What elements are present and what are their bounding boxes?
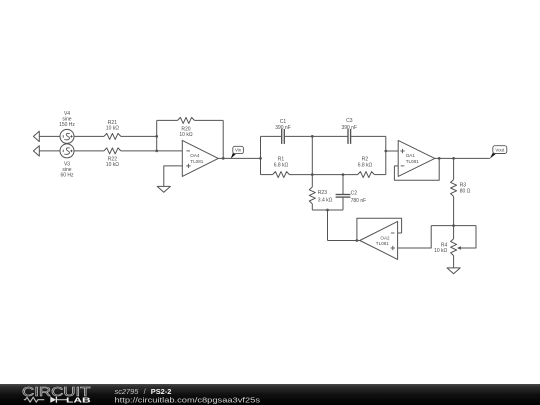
wire node to OA4 inverting input bbox=[157, 150, 183, 152]
wire R21 to summing node bbox=[121, 135, 157, 137]
wire C1 node to C3 bbox=[312, 135, 348, 137]
junction dot R3/R4 bbox=[452, 224, 455, 227]
wire R23/C2 bottom bbox=[312, 209, 343, 211]
wire R1 to mid node bbox=[289, 174, 312, 176]
capacitor C1 390 nF bbox=[275, 119, 291, 144]
svg-text:TL081: TL081 bbox=[406, 159, 419, 164]
potentiometer R4 10 kOhm bbox=[434, 226, 461, 268]
CircuitLab logo bbox=[22, 385, 92, 405]
svg-text:390 nF: 390 nF bbox=[342, 125, 358, 131]
node flag Vin bbox=[231, 146, 244, 158]
wire OA1 inverting stub bbox=[394, 165, 398, 167]
wire OA2 output riser bbox=[327, 210, 329, 241]
svg-text:C1: C1 bbox=[280, 119, 287, 125]
svg-text:http://circuitlab.com/c8pgsaa3: http://circuitlab.com/c8pgsaa3vf25s bbox=[115, 396, 261, 405]
svg-text:OA2: OA2 bbox=[380, 235, 390, 240]
wire mid node to R2 bbox=[312, 174, 357, 176]
wire summing node vertical bbox=[156, 120, 158, 150]
junction dot filter input bbox=[259, 157, 262, 160]
wire pot top horizontal bbox=[431, 225, 476, 227]
svg-text:780 nF: 780 nF bbox=[351, 198, 367, 204]
junction dot C2 top bbox=[342, 173, 345, 176]
svg-text:6.8 kΩ: 6.8 kΩ bbox=[274, 162, 289, 168]
resistor R21 10 kOhm bbox=[104, 120, 121, 139]
wire OA1 feedback loop bbox=[394, 158, 439, 180]
junction dot OA1 + tap bbox=[384, 150, 387, 153]
capacitor C3 390 nF bbox=[342, 118, 358, 144]
svg-text:PS2-2: PS2-2 bbox=[151, 387, 172, 396]
resistor R3 80 Ohm bbox=[451, 158, 471, 225]
wire OA2 inverting stub bbox=[398, 232, 402, 234]
wire right branch to wiper bbox=[461, 226, 476, 248]
wire R22 to summing node bbox=[121, 150, 157, 152]
wire V3 to R22 bbox=[74, 150, 104, 152]
svg-text:6.8 kΩ: 6.8 kΩ bbox=[358, 162, 373, 168]
wire top-mid vertical bbox=[311, 136, 313, 174]
voltage source V4 (sine 150 Hz) bbox=[59, 111, 75, 143]
svg-text:OA1: OA1 bbox=[406, 153, 416, 158]
junction dot top C1/C3 bbox=[311, 135, 314, 138]
resistor R2 6.8 kOhm bbox=[358, 157, 375, 178]
op-amp OA2 TL081 (mirrored) bbox=[360, 221, 398, 259]
wire C1 to top node bbox=[284, 135, 312, 137]
svg-text:80 Ω: 80 Ω bbox=[460, 189, 471, 195]
capacitor C2 780 nF bbox=[336, 175, 367, 210]
svg-text:60 Hz: 60 Hz bbox=[60, 173, 74, 179]
junction dot R3 top bbox=[452, 157, 455, 160]
resistor R23 3.4 kOhm bbox=[309, 175, 332, 210]
wire OA1 output bbox=[435, 157, 490, 159]
op-amp OA1 TL081 bbox=[398, 140, 435, 176]
svg-text:150 Hz: 150 Hz bbox=[59, 122, 75, 128]
wire left branch to OA2 noninverting bbox=[398, 226, 432, 248]
wire filter input vertical bbox=[260, 136, 262, 174]
svg-text:TL081: TL081 bbox=[190, 159, 203, 164]
ground at R4 bbox=[447, 268, 460, 274]
wire right vertical bbox=[385, 136, 387, 174]
junction dot OA1 feedback bbox=[438, 157, 441, 160]
svg-text:10 kΩ: 10 kΩ bbox=[106, 162, 119, 168]
junction dot feedback/output bbox=[222, 157, 225, 160]
wire OA2 feedback loop bbox=[357, 218, 402, 240]
op-amp OA4 TL081 bbox=[182, 140, 218, 176]
svg-text:OA4: OA4 bbox=[190, 153, 200, 158]
ground (rotated left) at V4 input bbox=[33, 131, 39, 141]
svg-text:sc2795: sc2795 bbox=[115, 387, 140, 396]
wire feedback vertical drop bbox=[222, 120, 224, 158]
wire OA2 output horizontal bbox=[328, 240, 360, 242]
svg-text:Vin: Vin bbox=[235, 148, 242, 153]
wire OA4 noninverting to ground corner bbox=[164, 166, 183, 187]
svg-text:Vout: Vout bbox=[495, 147, 505, 152]
svg-text:390 nF: 390 nF bbox=[275, 125, 291, 131]
wire V3 left bbox=[39, 150, 60, 152]
footer text line 1 bbox=[115, 387, 172, 396]
wire tap to OA1 noninverting bbox=[386, 150, 398, 152]
svg-text:R23: R23 bbox=[318, 190, 327, 196]
junction dot mid R1/R2/R23 bbox=[311, 173, 314, 176]
node junction dot R21 bbox=[155, 135, 158, 138]
wire to R1 bbox=[261, 174, 273, 176]
ground at OA4 bbox=[157, 186, 170, 192]
wire OA4 output to filter bbox=[218, 157, 260, 159]
svg-text:10 kΩ: 10 kΩ bbox=[179, 132, 192, 138]
junction dot bottom wire bbox=[326, 209, 329, 212]
svg-text:LAB: LAB bbox=[66, 396, 92, 405]
svg-text:10 kΩ: 10 kΩ bbox=[106, 126, 119, 132]
wire V4 to R21 bbox=[74, 135, 104, 137]
wire feedback to R20 bbox=[157, 119, 178, 121]
svg-text:C2: C2 bbox=[351, 191, 358, 197]
svg-text:C3: C3 bbox=[346, 118, 353, 124]
resistor R1 6.8 kOhm bbox=[273, 157, 290, 178]
svg-text:10 kΩ: 10 kΩ bbox=[434, 248, 447, 254]
node flag Vout bbox=[490, 146, 507, 159]
resistor R22 10 kOhm bbox=[104, 148, 121, 168]
svg-text:TL081: TL081 bbox=[376, 241, 389, 246]
resistor R20 10 kOhm feedback bbox=[178, 117, 195, 138]
wire R2 to right vertical bbox=[374, 174, 385, 176]
ground (rotated left) at V3 input bbox=[33, 146, 39, 156]
wire R20 to output drop bbox=[194, 119, 223, 121]
junction dot OA2 output bbox=[356, 239, 359, 242]
svg-text:3.4 kΩ: 3.4 kΩ bbox=[318, 198, 333, 204]
voltage source V3 (sine 60 Hz) bbox=[60, 144, 74, 179]
wire V4 left bbox=[39, 135, 60, 137]
wire C3 to right vertical bbox=[351, 135, 386, 137]
node junction dot R22 bbox=[155, 150, 158, 153]
wire to C1 bbox=[261, 135, 282, 137]
footer bar bbox=[0, 384, 540, 405]
